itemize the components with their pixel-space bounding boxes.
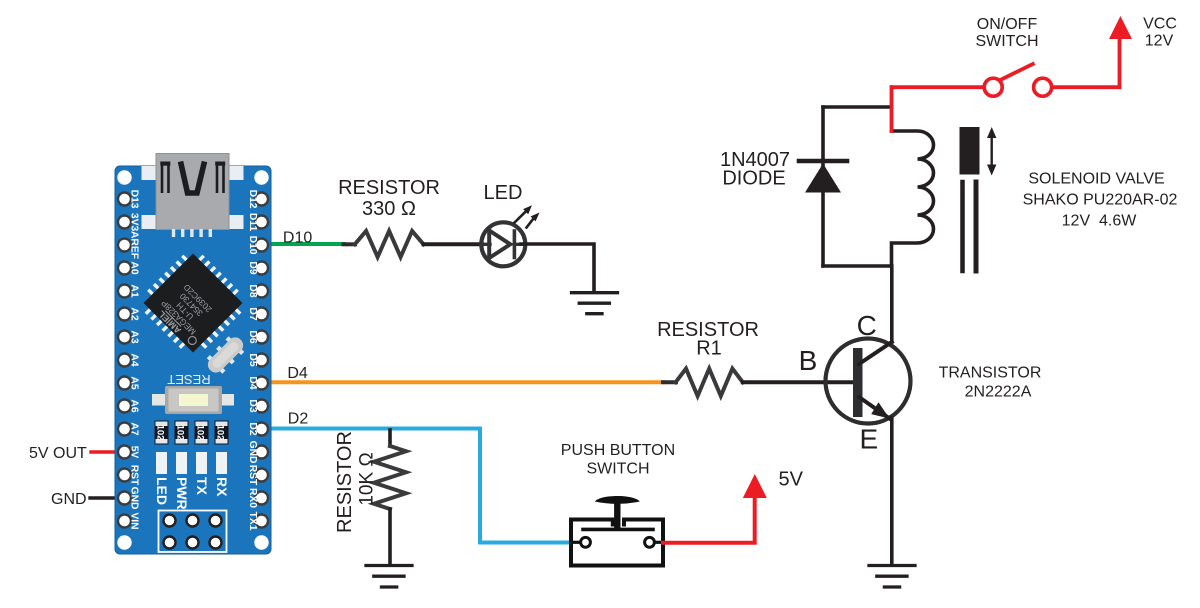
svg-text:5V OUT: 5V OUT <box>29 445 87 462</box>
svg-text:LED: LED <box>484 182 523 204</box>
svg-text:A0: A0 <box>128 261 139 274</box>
svg-text:12V 4.6W: 12V 4.6W <box>1062 213 1138 230</box>
svg-text:D2: D2 <box>247 422 258 435</box>
svg-text:SWITCH: SWITCH <box>586 461 649 478</box>
svg-text:A5: A5 <box>128 376 139 389</box>
svg-text:SOLENOID VALVE: SOLENOID VALVE <box>1028 171 1164 188</box>
svg-text:D7: D7 <box>247 307 258 320</box>
svg-text:D4: D4 <box>287 365 308 382</box>
svg-text:VCC: VCC <box>1143 16 1177 33</box>
svg-text:D8: D8 <box>247 284 258 297</box>
svg-text:A1: A1 <box>128 284 139 297</box>
svg-text:D9: D9 <box>247 261 258 274</box>
svg-text:D10: D10 <box>283 230 312 247</box>
svg-text:GND: GND <box>51 491 87 508</box>
svg-text:PWR: PWR <box>174 477 190 510</box>
svg-text:TRANSISTOR: TRANSISTOR <box>939 365 1042 382</box>
svg-text:A7: A7 <box>128 422 139 435</box>
svg-text:GND: GND <box>247 441 258 464</box>
svg-text:102: 102 <box>215 425 226 441</box>
svg-text:RX0: RX0 <box>247 488 258 508</box>
svg-text:DIODE: DIODE <box>722 168 785 190</box>
svg-text:RESISTOR: RESISTOR <box>334 431 356 533</box>
svg-text:A2: A2 <box>128 307 139 320</box>
svg-text:VIN: VIN <box>128 512 139 529</box>
svg-text:LED: LED <box>154 477 170 505</box>
svg-text:RESISTOR: RESISTOR <box>338 177 440 199</box>
svg-text:TX: TX <box>194 477 210 496</box>
svg-text:RST: RST <box>247 465 258 486</box>
svg-text:RESET: RESET <box>167 372 210 387</box>
svg-text:TX1: TX1 <box>247 512 258 531</box>
svg-text:A3: A3 <box>128 330 139 343</box>
svg-text:B: B <box>799 345 818 376</box>
svg-text:5V: 5V <box>779 469 804 491</box>
svg-text:RST: RST <box>128 465 139 486</box>
svg-text:SHAKO PU220AR-02: SHAKO PU220AR-02 <box>1023 192 1178 209</box>
svg-text:D11: D11 <box>247 213 258 232</box>
svg-text:102: 102 <box>155 425 166 441</box>
svg-text:SWITCH: SWITCH <box>975 33 1038 50</box>
svg-text:R1: R1 <box>696 338 722 360</box>
svg-text:A6: A6 <box>128 399 139 412</box>
svg-text:330 Ω: 330 Ω <box>362 198 416 220</box>
svg-text:RX: RX <box>214 477 230 497</box>
svg-text:5V: 5V <box>128 446 139 459</box>
svg-text:D5: D5 <box>247 353 258 366</box>
svg-text:D12: D12 <box>247 190 258 209</box>
svg-text:3V3: 3V3 <box>128 213 139 232</box>
svg-text:PUSH BUTTON: PUSH BUTTON <box>561 442 675 459</box>
svg-text:12V: 12V <box>1145 33 1174 50</box>
svg-text:D13: D13 <box>128 190 139 209</box>
svg-text:D3: D3 <box>247 399 258 412</box>
svg-text:D4: D4 <box>247 376 258 389</box>
svg-text:2N2222A: 2N2222A <box>965 383 1032 400</box>
svg-text:GND: GND <box>128 487 139 510</box>
svg-text:102: 102 <box>195 425 206 441</box>
svg-text:D2: D2 <box>288 410 309 427</box>
svg-text:A4: A4 <box>128 353 139 366</box>
svg-text:10K Ω: 10K Ω <box>357 452 378 505</box>
svg-text:E: E <box>859 424 878 455</box>
svg-text:ON/OFF: ON/OFF <box>977 16 1038 33</box>
svg-text:D10: D10 <box>247 236 258 255</box>
svg-text:C: C <box>857 310 877 341</box>
svg-text:102: 102 <box>175 425 186 441</box>
svg-text:AREF: AREF <box>128 231 139 259</box>
svg-text:D6: D6 <box>247 330 258 343</box>
